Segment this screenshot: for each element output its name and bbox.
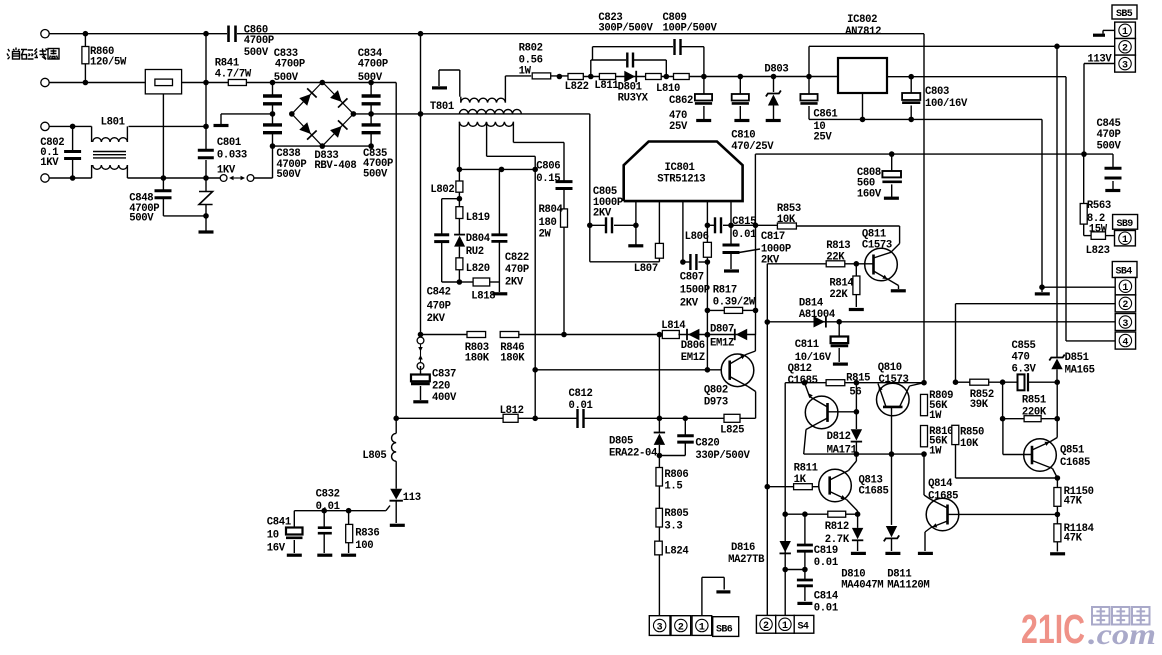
svg-text:113: 113 [403, 492, 421, 504]
svg-text:470: 470 [1012, 351, 1030, 363]
svg-text:180: 180 [539, 217, 557, 229]
svg-text:C805: C805 [593, 186, 617, 198]
svg-text:1W: 1W [929, 445, 942, 457]
svg-text:RBV-408: RBV-408 [314, 160, 356, 172]
svg-text:2KV: 2KV [680, 297, 699, 309]
svg-text:25V: 25V [813, 131, 832, 143]
svg-text:1: 1 [1122, 235, 1128, 246]
svg-text:3: 3 [1122, 60, 1128, 71]
svg-text:IC801: IC801 [665, 162, 695, 174]
svg-text:0.56: 0.56 [519, 54, 543, 66]
svg-text:120/5W: 120/5W [90, 57, 127, 69]
svg-text:D812: D812 [827, 431, 851, 443]
svg-text:Q851: Q851 [1060, 444, 1084, 456]
svg-text:500V: 500V [363, 169, 388, 181]
svg-text:3: 3 [657, 622, 663, 633]
svg-text:ERA22-04: ERA22-04 [609, 448, 658, 460]
svg-text:D806: D806 [681, 340, 705, 352]
svg-text:L805: L805 [362, 450, 386, 462]
svg-text:C811: C811 [795, 339, 819, 351]
svg-text:C803: C803 [925, 86, 949, 98]
svg-text:Q814: Q814 [928, 478, 953, 490]
svg-text:0.01: 0.01 [814, 602, 838, 614]
svg-text:15W: 15W [1089, 224, 1108, 236]
svg-text:21IC: 21IC [1021, 606, 1085, 652]
svg-text:C1573: C1573 [862, 239, 892, 251]
svg-text:100P/500V: 100P/500V [663, 23, 718, 35]
svg-text:400V: 400V [432, 392, 457, 404]
svg-text:L802: L802 [430, 184, 454, 196]
svg-text:L823: L823 [1086, 245, 1110, 257]
svg-text:1500P: 1500P [680, 285, 710, 297]
svg-text:C806: C806 [536, 160, 560, 172]
svg-text:470P: 470P [427, 300, 451, 312]
svg-text:R805: R805 [664, 508, 688, 520]
svg-text:470P: 470P [1097, 129, 1121, 141]
svg-text:R850: R850 [960, 427, 984, 439]
svg-text:R811: R811 [794, 463, 818, 475]
svg-text:330P/500V: 330P/500V [695, 450, 750, 462]
svg-text:1.5: 1.5 [664, 481, 682, 493]
svg-text:D816: D816 [731, 542, 755, 554]
svg-text:10: 10 [267, 530, 279, 542]
svg-text:L811: L811 [594, 80, 618, 92]
svg-text:2: 2 [678, 622, 684, 633]
svg-text:D804: D804 [466, 233, 491, 245]
svg-text:SB5: SB5 [1116, 9, 1133, 20]
svg-text:L807: L807 [634, 263, 658, 275]
svg-text:L806: L806 [685, 231, 709, 243]
svg-text:180K: 180K [500, 352, 525, 364]
svg-text:470P: 470P [505, 264, 529, 276]
svg-text:.com: .com [1088, 618, 1156, 651]
svg-text:100/16V: 100/16V [925, 98, 968, 110]
svg-text:0.033: 0.033 [217, 150, 247, 162]
svg-text:R802: R802 [519, 43, 543, 55]
svg-text:22K: 22K [829, 289, 848, 301]
svg-text:L825: L825 [720, 425, 744, 437]
svg-text:0.01: 0.01 [732, 229, 756, 241]
svg-text:Q802: Q802 [704, 384, 728, 396]
svg-text:220K: 220K [1022, 406, 1047, 418]
svg-text:D803: D803 [764, 63, 788, 75]
svg-text:1KV: 1KV [40, 157, 59, 169]
svg-text:L818: L818 [471, 291, 495, 303]
svg-text:2KV: 2KV [505, 276, 524, 288]
svg-text:C1685: C1685 [928, 491, 958, 503]
svg-text:C807: C807 [680, 272, 704, 284]
svg-text:STR51213: STR51213 [657, 174, 705, 186]
svg-text:4700P: 4700P [244, 35, 274, 47]
svg-text:1: 1 [1122, 283, 1128, 294]
svg-text:L824: L824 [664, 545, 689, 557]
svg-text:C837: C837 [432, 368, 456, 380]
svg-text:C810: C810 [731, 130, 755, 142]
svg-text:470: 470 [669, 110, 687, 122]
svg-text:RU3YX: RU3YX [618, 93, 649, 105]
svg-text:47K: 47K [1064, 532, 1083, 544]
svg-text:RU2: RU2 [466, 246, 484, 258]
svg-text:R814: R814 [829, 277, 854, 289]
svg-text:6.3V: 6.3V [1012, 364, 1037, 376]
svg-text:R851: R851 [1022, 395, 1046, 407]
svg-text:1: 1 [699, 622, 705, 633]
svg-text:C842: C842 [427, 287, 451, 299]
svg-text:0.01: 0.01 [316, 501, 340, 513]
svg-text:100: 100 [355, 540, 373, 552]
svg-text:C822: C822 [505, 252, 529, 264]
svg-text:1KV: 1KV [217, 165, 236, 177]
svg-text:10K: 10K [960, 438, 979, 450]
svg-text:3: 3 [1122, 319, 1128, 330]
svg-text:180K: 180K [465, 352, 490, 364]
svg-text:3.3: 3.3 [664, 521, 682, 533]
svg-text:R813: R813 [826, 240, 850, 252]
svg-text:C861: C861 [813, 109, 837, 121]
svg-text:C820: C820 [695, 438, 719, 450]
svg-text:L812: L812 [500, 405, 524, 417]
svg-text:AN7812: AN7812 [845, 26, 881, 38]
svg-text:EM1Z: EM1Z [710, 338, 734, 350]
svg-text:D851: D851 [1065, 352, 1089, 364]
svg-text:56: 56 [849, 386, 861, 398]
svg-text:MA1120M: MA1120M [887, 579, 929, 591]
svg-text:16V: 16V [267, 543, 286, 555]
svg-text:2: 2 [1122, 44, 1128, 55]
svg-text:C1685: C1685 [859, 486, 889, 498]
svg-text:C812: C812 [569, 388, 593, 400]
svg-text:1: 1 [1122, 27, 1128, 38]
svg-text:113V: 113V [1087, 54, 1112, 66]
svg-text:R812: R812 [825, 521, 849, 533]
svg-text:R817: R817 [713, 285, 737, 297]
svg-text:0.39/2W: 0.39/2W [713, 296, 756, 308]
svg-text:C1685: C1685 [788, 375, 818, 387]
svg-text:500V: 500V [1097, 141, 1122, 153]
svg-text:C817: C817 [761, 231, 785, 243]
svg-text:L810: L810 [656, 83, 680, 95]
svg-text:C841: C841 [267, 516, 291, 528]
svg-text:C855: C855 [1012, 340, 1036, 352]
svg-text:4700P: 4700P [358, 58, 388, 70]
svg-text:1K: 1K [794, 474, 807, 486]
svg-text:470/25V: 470/25V [731, 141, 774, 153]
svg-text:EM1Z: EM1Z [681, 352, 705, 364]
svg-text:2KV: 2KV [761, 255, 780, 267]
svg-text:39K: 39K [970, 399, 989, 411]
svg-text:1W: 1W [519, 66, 532, 78]
svg-text:500V: 500V [274, 72, 299, 84]
svg-text:L820: L820 [466, 263, 490, 275]
svg-text:L819: L819 [466, 212, 490, 224]
svg-text:C1685: C1685 [1060, 457, 1090, 469]
svg-text:R804: R804 [539, 204, 564, 216]
svg-text:T801: T801 [430, 101, 454, 113]
svg-text:0.01: 0.01 [814, 557, 838, 569]
svg-text:300P/500V: 300P/500V [598, 23, 653, 35]
svg-text:C819: C819 [814, 545, 838, 557]
svg-text:2W: 2W [539, 228, 552, 240]
svg-text:D973: D973 [704, 397, 728, 409]
svg-text:500V: 500V [276, 169, 301, 181]
svg-text:C832: C832 [316, 489, 340, 501]
svg-text:1: 1 [782, 621, 788, 632]
svg-text:2KV: 2KV [593, 208, 612, 220]
svg-text:C862: C862 [669, 95, 693, 107]
svg-text:D807: D807 [710, 324, 734, 336]
svg-text:500V: 500V [358, 72, 383, 84]
svg-text:L814: L814 [661, 320, 686, 332]
svg-text:25V: 25V [669, 121, 688, 133]
svg-text:SB6: SB6 [716, 625, 733, 636]
svg-text:2: 2 [1122, 300, 1128, 311]
svg-text:D814: D814 [799, 297, 824, 309]
svg-text:R836: R836 [355, 527, 379, 539]
svg-text:4700P: 4700P [275, 58, 305, 70]
svg-text:Q812: Q812 [788, 363, 812, 375]
svg-text:SB4: SB4 [1116, 267, 1133, 278]
svg-text:500V: 500V [129, 212, 154, 224]
svg-text:C1573: C1573 [879, 374, 909, 386]
svg-text:1W: 1W [929, 410, 942, 422]
svg-text:0.15: 0.15 [536, 173, 560, 185]
svg-text:4: 4 [1122, 337, 1128, 348]
svg-text:MA27TB: MA27TB [728, 554, 765, 566]
svg-text:MA165: MA165 [1065, 365, 1095, 377]
svg-text:R563: R563 [1087, 200, 1111, 212]
svg-text:47K: 47K [1064, 496, 1083, 508]
svg-text:4.7/7W: 4.7/7W [215, 69, 252, 81]
svg-text:22K: 22K [826, 252, 845, 264]
svg-text:L822: L822 [565, 81, 589, 93]
svg-text:C815: C815 [732, 216, 756, 228]
svg-text:A81004: A81004 [799, 309, 836, 321]
svg-text:SB9: SB9 [1117, 219, 1134, 230]
svg-text:MA4047M: MA4047M [841, 579, 883, 591]
svg-text:IC802: IC802 [847, 14, 877, 26]
svg-text:160V: 160V [857, 189, 882, 201]
svg-text:S4: S4 [798, 622, 809, 633]
svg-text:C801: C801 [217, 137, 241, 149]
svg-text:10K: 10K [777, 214, 796, 226]
svg-text:C814: C814 [814, 590, 839, 602]
svg-text:0.01: 0.01 [569, 400, 593, 412]
svg-text:R806: R806 [664, 469, 688, 481]
svg-text:2KV: 2KV [427, 313, 446, 325]
svg-text:L801: L801 [101, 117, 125, 129]
svg-text:Q810: Q810 [878, 362, 902, 374]
svg-text:2: 2 [763, 621, 769, 632]
svg-text:R815: R815 [846, 373, 870, 385]
svg-text:500V: 500V [244, 47, 269, 59]
svg-text:D805: D805 [609, 435, 633, 447]
